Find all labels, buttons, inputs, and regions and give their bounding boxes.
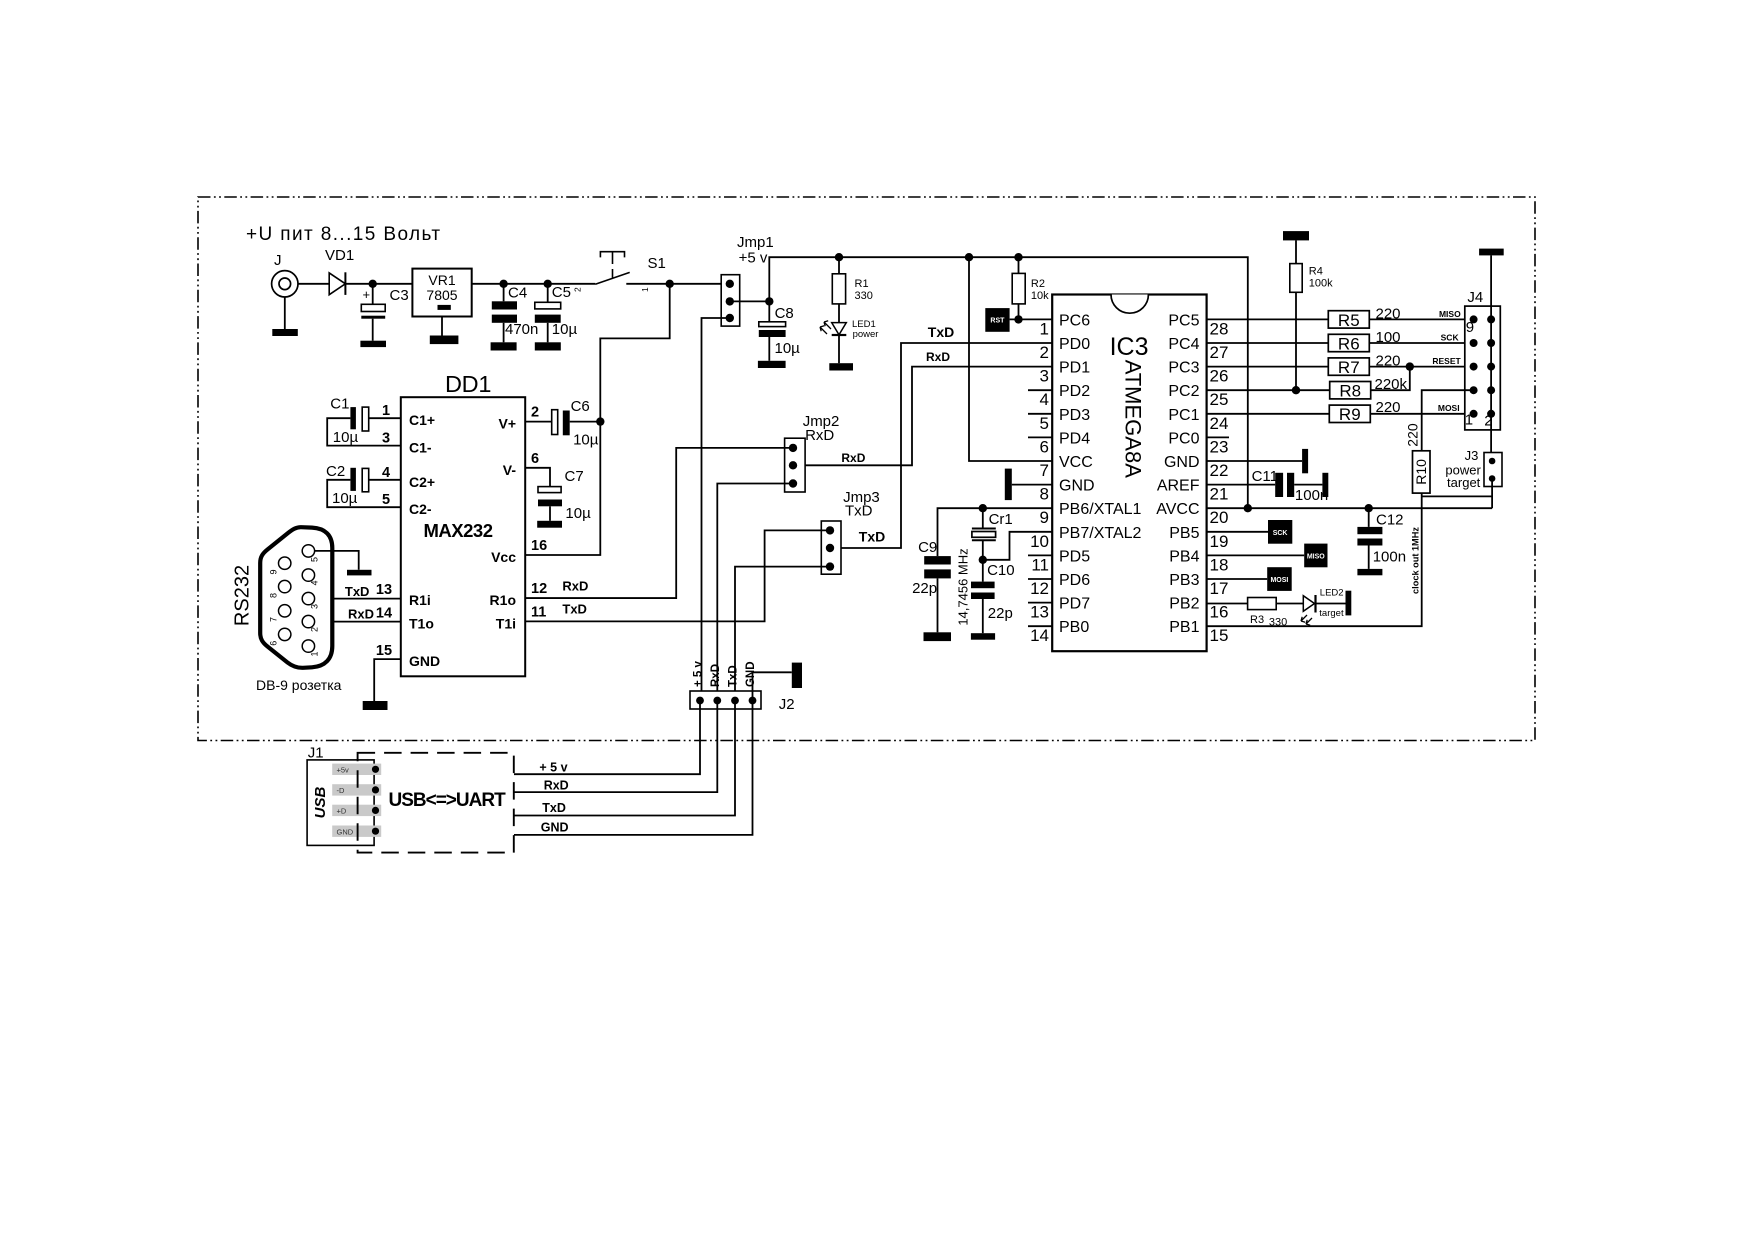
svg-text:1: 1 <box>382 403 390 419</box>
svg-text:R7: R7 <box>1338 358 1360 377</box>
wire R10 to PB1 clock out <box>1207 493 1422 626</box>
svg-text:23: 23 <box>1210 437 1229 456</box>
svg-text:2: 2 <box>531 405 539 421</box>
ground for C4 <box>491 342 517 350</box>
svg-text:TxD: TxD <box>542 801 566 815</box>
wire R9 to J4 MOSI <box>1370 413 1473 415</box>
svg-text:AREF: AREF <box>1157 478 1200 495</box>
wire LED1 to ground <box>838 335 840 363</box>
svg-text:8: 8 <box>269 593 279 598</box>
connector DB-9 RS232 <box>260 527 332 668</box>
node AVCC rail <box>1244 504 1252 512</box>
svg-text:DB-9 розетка: DB-9 розетка <box>256 677 342 693</box>
svg-text:J4: J4 <box>1467 289 1483 306</box>
svg-text:IC3: IC3 <box>1110 333 1149 361</box>
svg-text:PB3: PB3 <box>1169 572 1199 589</box>
svg-text:9: 9 <box>269 569 279 574</box>
resistor R7 220 <box>1328 358 1369 375</box>
wire RxD net Jmp2 to PD1 <box>793 367 1052 466</box>
svg-text:R2: R2 <box>1031 278 1045 290</box>
svg-text:PD6: PD6 <box>1059 572 1090 589</box>
svg-text:V-: V- <box>503 462 517 478</box>
wire PB2 pin16 to R3 <box>1207 603 1248 605</box>
capacitor C3 <box>372 284 374 305</box>
wire +5v branch down to MAX232 Vcc <box>525 284 670 555</box>
svg-text:RxD: RxD <box>562 579 588 594</box>
wire V+ pin2 to C6 <box>525 421 552 423</box>
svg-text:21: 21 <box>1210 485 1229 504</box>
svg-text:11: 11 <box>1031 555 1049 574</box>
svg-text:USB<=>UART: USB<=>UART <box>389 790 507 811</box>
svg-text:12: 12 <box>531 581 547 597</box>
svg-text:20: 20 <box>1210 508 1229 527</box>
connector J3 power target <box>1484 453 1502 487</box>
ground for MAX232 <box>363 701 388 710</box>
svg-text:PB2: PB2 <box>1169 596 1199 613</box>
resistor R10 220 <box>1413 451 1431 493</box>
wire VR1 to switch S1 <box>472 283 596 285</box>
svg-text:1: 1 <box>310 651 320 656</box>
svg-text:1: 1 <box>1040 319 1049 338</box>
svg-text:3: 3 <box>310 604 320 609</box>
wire R7 to J4 RESET <box>1369 366 1473 368</box>
svg-text:AVCC: AVCC <box>1156 501 1199 518</box>
svg-text:18: 18 <box>1210 555 1229 574</box>
capacitor C1 10µ <box>350 407 356 429</box>
svg-text:16: 16 <box>1210 603 1229 622</box>
node R4 junction <box>1292 386 1300 394</box>
ground for C12 <box>1357 569 1382 575</box>
svg-text:SCK: SCK <box>1441 333 1460 343</box>
svg-text:4: 4 <box>382 465 390 481</box>
resistor R3 330 <box>1248 598 1277 610</box>
svg-text:Jmp1: Jmp1 <box>737 234 774 251</box>
svg-text:470n: 470n <box>505 321 538 338</box>
wire AVCC pin20 <box>1207 507 1493 509</box>
ground for C7 <box>537 521 562 528</box>
wire PC4 pin27 to R6 <box>1207 342 1329 344</box>
wire J3 bottom pin to AVCC line <box>1491 479 1493 509</box>
svg-text:target: target <box>1319 608 1344 619</box>
svg-text:C1+: C1+ <box>409 412 435 428</box>
IC3 unconnected left stubs pins 4,5,6,11,12,13,14 <box>1028 389 1052 391</box>
capacitor C4 470n <box>503 284 505 302</box>
wire C1 to pin3 <box>327 418 401 445</box>
svg-text:TxD: TxD <box>845 503 873 520</box>
wire R1i pin13 from DB9 pin3 <box>314 598 401 600</box>
wire S1 to Jmp1 <box>626 283 721 285</box>
jumper Jmp3 <box>821 521 841 574</box>
connector J1 USB <box>307 760 374 846</box>
wire R1o pin12 RxD <box>525 597 676 599</box>
ground bar at IC3 pin8 <box>1012 484 1052 486</box>
ground bar above J4 <box>1479 249 1504 256</box>
connector J (power jack) <box>272 271 298 297</box>
svg-text:C6: C6 <box>571 398 590 415</box>
svg-text:T1i: T1i <box>496 615 516 631</box>
USB UART module dashed box <box>358 753 514 853</box>
svg-text:TxD: TxD <box>562 602 587 617</box>
svg-text:C1-: C1- <box>409 440 432 456</box>
node rail R1 <box>835 253 843 261</box>
svg-text:PD1: PD1 <box>1059 360 1090 377</box>
svg-text:6: 6 <box>1040 437 1049 456</box>
wire V- pin6 to C7 <box>525 468 550 487</box>
svg-text:1: 1 <box>640 287 650 292</box>
svg-text:13: 13 <box>376 582 392 598</box>
svg-text:3: 3 <box>1040 367 1049 386</box>
svg-text:RxD: RxD <box>348 607 374 622</box>
svg-text:9: 9 <box>1466 319 1474 336</box>
wire Jmp1 bottom pin to J2 +5v <box>702 318 730 701</box>
svg-text:SCK: SCK <box>1273 530 1288 537</box>
svg-text:11: 11 <box>531 604 546 620</box>
capacitor C12 100n <box>1368 508 1370 527</box>
switch S1 pushbutton <box>600 252 624 258</box>
svg-text:PD2: PD2 <box>1059 383 1090 400</box>
ground for C5 <box>535 342 561 350</box>
svg-text:7: 7 <box>269 617 279 622</box>
svg-text:PB7/XTAL2: PB7/XTAL2 <box>1059 525 1142 542</box>
svg-text:power: power <box>853 329 879 340</box>
svg-text:RxD: RxD <box>841 451 865 465</box>
node XTAL1 <box>979 504 987 512</box>
svg-text:330: 330 <box>855 290 873 302</box>
wire R5 to J4 MISO <box>1369 318 1473 320</box>
wire R6 to J4 SCK <box>1369 342 1473 344</box>
svg-text:MAX232: MAX232 <box>424 520 493 541</box>
wire J4 pin to R10 <box>1422 390 1474 451</box>
svg-text:+ 5 v: + 5 v <box>693 660 705 687</box>
svg-text:target: target <box>1447 475 1481 490</box>
svg-text:PB5: PB5 <box>1169 525 1199 542</box>
svg-text:PB0: PB0 <box>1059 619 1089 636</box>
svg-text:C1: C1 <box>330 396 349 413</box>
node RESET junction <box>1406 362 1414 370</box>
svg-text:VD1: VD1 <box>325 247 354 264</box>
capacitor C11 100n <box>1207 484 1276 486</box>
svg-text:TxD: TxD <box>859 529 885 545</box>
svg-text:PB1: PB1 <box>1169 619 1199 636</box>
IC3 stub pin 23 PC0 <box>1207 436 1229 438</box>
svg-text:22: 22 <box>1210 461 1229 480</box>
svg-text:PC1: PC1 <box>1168 407 1199 424</box>
wire TxD net Jmp3 to PD0 <box>830 343 1052 548</box>
svg-text:10µ: 10µ <box>552 321 578 338</box>
ground for C3 <box>360 341 386 347</box>
wire RST to PC6 pin1 <box>1010 318 1053 320</box>
net label RST black box <box>985 308 1009 332</box>
svg-text:R10: R10 <box>1413 459 1429 485</box>
wire Jmp3 top pin to MAX232 T1i <box>525 530 830 621</box>
voltage regulator VR1 7805 <box>412 269 471 317</box>
wire crystal to pin10 XTAL2 <box>983 532 1052 560</box>
svg-text:J3: J3 <box>1465 448 1479 463</box>
capacitor C7 10µ <box>538 487 561 493</box>
wire C2 to pin5 <box>327 480 401 507</box>
svg-text:clock out 1MHz: clock out 1MHz <box>1410 527 1420 594</box>
wire J4 ground column <box>1490 255 1492 461</box>
svg-text:C8: C8 <box>775 305 794 322</box>
svg-text:10µ: 10µ <box>775 340 801 357</box>
wire +5v rail <box>769 257 1248 508</box>
capacitor C10 22p <box>982 560 984 582</box>
node C4 junction <box>499 280 507 288</box>
wire R8 to RESET net <box>1371 367 1410 391</box>
ground bar at pin22 <box>1302 449 1308 473</box>
svg-text:MOSI: MOSI <box>1270 577 1288 584</box>
dash-dot device boundary frame <box>198 197 1535 741</box>
wire DB9 pin5 to ground <box>315 551 359 570</box>
ground for C8 <box>758 361 786 368</box>
svg-text:C3: C3 <box>390 287 409 304</box>
svg-text:PD4: PD4 <box>1059 430 1090 447</box>
wire Jmp2 bottom pin to J2 RxD <box>717 484 793 701</box>
wire Jmp2 top pin to MAX232 R1o <box>525 448 793 598</box>
wire PC5 pin28 to R5 <box>1207 318 1329 320</box>
svg-text:16: 16 <box>531 538 547 554</box>
svg-text:GND: GND <box>337 828 354 837</box>
svg-text:C11: C11 <box>1252 468 1278 485</box>
J1 pin pads <box>332 764 381 775</box>
wire rail to VCC pin7 <box>969 257 1052 461</box>
resistor R9 220 <box>1329 405 1370 422</box>
wire J3 to R10 node <box>1422 495 1492 497</box>
node S1 output junction <box>666 280 674 288</box>
svg-text:C2+: C2+ <box>409 474 435 490</box>
svg-text:5: 5 <box>1040 414 1049 433</box>
capacitor C8 10µ <box>768 301 770 321</box>
svg-text:USB: USB <box>312 786 329 818</box>
svg-text:MOSI: MOSI <box>1438 403 1460 413</box>
resistor R4 100k <box>1295 240 1297 263</box>
ground for J <box>272 329 298 336</box>
svg-text:GND: GND <box>745 661 757 687</box>
node XTAL2 <box>979 556 987 564</box>
svg-text:27: 27 <box>1210 343 1229 362</box>
node rail R2 <box>1014 253 1022 261</box>
svg-text:RxD: RxD <box>710 664 722 687</box>
net label MOSI black box at PB3 <box>1207 578 1268 580</box>
svg-text:VCC: VCC <box>1059 454 1093 471</box>
svg-text:2: 2 <box>310 627 320 632</box>
svg-text:+5 v: +5 v <box>739 250 768 267</box>
wire module TxD to J2 <box>514 701 735 816</box>
LED1 power <box>838 304 840 323</box>
ground bar for C11 <box>1322 473 1328 497</box>
ground for VR1 <box>430 336 459 345</box>
ground bar above R4 <box>1283 231 1309 240</box>
svg-text:TxD: TxD <box>345 584 370 599</box>
svg-text:Cr1: Cr1 <box>989 511 1013 528</box>
node C12 <box>1365 504 1373 512</box>
svg-text:9: 9 <box>1040 508 1049 527</box>
wire J2 GND to ground bar <box>753 672 792 700</box>
svg-text:14: 14 <box>1030 626 1049 645</box>
resistor R1 330 <box>838 257 840 274</box>
svg-text:100k: 100k <box>1309 278 1333 290</box>
svg-text:GND: GND <box>541 821 569 835</box>
svg-text:17: 17 <box>1210 579 1229 598</box>
wire Jmp1 middle pin to +5v node <box>730 300 770 302</box>
wire GND pin22 to ground bar <box>1207 460 1303 462</box>
jumper Jmp2 <box>785 438 806 492</box>
svg-text:220: 220 <box>1404 423 1420 447</box>
svg-text:-D: -D <box>337 786 345 795</box>
svg-text:2: 2 <box>1040 343 1049 362</box>
ground for DB9 pin5 <box>347 570 372 576</box>
svg-text:4: 4 <box>310 580 320 585</box>
svg-text:TxD: TxD <box>928 324 954 340</box>
svg-text:PD5: PD5 <box>1059 548 1090 565</box>
svg-text:5: 5 <box>310 557 320 562</box>
svg-text:V+: V+ <box>498 416 516 432</box>
svg-text:10k: 10k <box>1031 290 1049 302</box>
svg-text:10µ: 10µ <box>565 505 591 522</box>
svg-text:DD1: DD1 <box>445 371 491 397</box>
svg-text:28: 28 <box>1210 319 1229 338</box>
resistor R8 220k <box>1330 382 1371 399</box>
svg-text:J1: J1 <box>308 745 324 762</box>
svg-text:PD7: PD7 <box>1059 596 1090 613</box>
node power-in junction <box>369 280 377 288</box>
svg-text:12: 12 <box>1030 579 1049 598</box>
node C6 junction <box>596 417 604 425</box>
svg-text:C10: C10 <box>987 562 1015 579</box>
svg-text:14,7456 MHz: 14,7456 MHz <box>955 548 970 625</box>
svg-text:RESET: RESET <box>1432 356 1461 366</box>
LED2 target <box>1303 596 1314 612</box>
svg-text:R4: R4 <box>1309 266 1323 278</box>
svg-text:4: 4 <box>1040 390 1049 409</box>
resistor R6 100 <box>1328 334 1369 351</box>
wire PC1 pin24 to R9 <box>1207 413 1330 415</box>
svg-text:+5v: +5v <box>337 766 350 775</box>
wire C2 to pin4 <box>369 479 401 481</box>
ground bar near J2 <box>792 663 802 688</box>
jumper Jmp1 <box>721 275 740 326</box>
svg-text:+D: +D <box>337 807 347 816</box>
svg-text:19: 19 <box>1210 532 1229 551</box>
svg-text:C5: C5 <box>552 284 571 301</box>
wire T1o pin14 to DB9 pin2 <box>314 621 401 623</box>
node +5v <box>765 297 773 305</box>
svg-text:C2-: C2- <box>409 501 432 517</box>
svg-text:R1o: R1o <box>490 592 516 608</box>
wire VD1 to VR1 <box>345 283 412 285</box>
target power bar <box>1346 591 1352 616</box>
svg-text:RxD: RxD <box>926 350 950 364</box>
svg-text:RS232: RS232 <box>232 565 254 626</box>
svg-text:ATMEGA8A: ATMEGA8A <box>1121 360 1146 479</box>
svg-text:R6: R6 <box>1338 334 1360 353</box>
svg-text:S1: S1 <box>648 255 666 272</box>
svg-text:R8: R8 <box>1339 382 1361 401</box>
svg-text:PB4: PB4 <box>1169 548 1199 565</box>
svg-text:R5: R5 <box>1338 311 1360 330</box>
svg-text:6: 6 <box>269 641 279 646</box>
svg-text:22p: 22p <box>988 605 1013 622</box>
capacitor C9 22p <box>924 556 951 564</box>
svg-text:GND: GND <box>409 653 440 669</box>
svg-text:6: 6 <box>531 451 539 467</box>
wire module RxD to J2 <box>514 701 717 793</box>
svg-text:7: 7 <box>1040 461 1049 480</box>
svg-text:R1i: R1i <box>409 592 431 608</box>
svg-text:15: 15 <box>1210 626 1229 645</box>
wire Jmp3 bottom pin to J2 TxD <box>735 567 830 701</box>
svg-text:25: 25 <box>1210 390 1229 409</box>
wire module +5v to J2 <box>514 701 700 775</box>
wire LED2 to target bar <box>1316 603 1345 605</box>
svg-text:R1: R1 <box>855 278 869 290</box>
net label SCK black box at PB5 <box>1207 531 1268 533</box>
IC IC3 ATMEGA8A <box>1052 295 1206 652</box>
svg-text:J2: J2 <box>779 696 795 713</box>
svg-text:GND: GND <box>1164 454 1200 471</box>
crystal Cr1 14,7456 MHz <box>982 508 984 528</box>
svg-text:C9: C9 <box>918 539 937 556</box>
svg-text:PC5: PC5 <box>1168 312 1199 329</box>
wire R3 to LED2 <box>1276 603 1303 605</box>
wire PC3 pin26 to R7 <box>1207 366 1329 368</box>
svg-text:8: 8 <box>1040 485 1049 504</box>
svg-text:2: 2 <box>573 287 583 292</box>
svg-text:14: 14 <box>376 605 392 621</box>
ground for LED1 <box>829 363 853 370</box>
node C5 junction <box>544 280 552 288</box>
svg-text:3: 3 <box>382 431 390 447</box>
wire GND pin15 to ground <box>374 659 401 701</box>
diode VD1 <box>329 273 345 295</box>
svg-text:+ 5 v: + 5 v <box>539 761 567 775</box>
svg-text:PC2: PC2 <box>1168 383 1199 400</box>
wire PC2 pin25 to R8 <box>1207 389 1330 391</box>
svg-text:T1o: T1o <box>409 615 434 631</box>
svg-text:J: J <box>274 252 282 269</box>
svg-text:PD3: PD3 <box>1059 407 1090 424</box>
svg-text:15: 15 <box>376 643 392 659</box>
svg-text:Vcc: Vcc <box>491 549 516 565</box>
ground for C9 <box>924 632 952 641</box>
wire C1 to pin1 <box>369 417 401 419</box>
svg-text:MISO: MISO <box>1307 553 1325 560</box>
svg-text:7805: 7805 <box>426 287 457 303</box>
IC DD1 MAX232 <box>401 397 525 676</box>
svg-text:RxD: RxD <box>544 779 569 793</box>
ground for C10 <box>971 633 995 640</box>
svg-text:R3: R3 <box>1250 614 1264 626</box>
svg-text:+: + <box>363 287 371 302</box>
svg-text:C4: C4 <box>508 285 527 302</box>
svg-text:5: 5 <box>382 492 390 508</box>
svg-text:PC3: PC3 <box>1168 360 1199 377</box>
svg-text:PC4: PC4 <box>1168 336 1199 353</box>
svg-text:100n: 100n <box>1373 549 1406 566</box>
capacitor C5 10µ <box>547 284 549 303</box>
svg-text:RxD: RxD <box>805 427 834 444</box>
resistor R5 220 <box>1328 311 1369 328</box>
capacitor C2 10µ <box>350 468 356 491</box>
net label MISO black box at PB4 <box>1207 554 1305 556</box>
wire J to ground <box>284 297 286 329</box>
crystal circuit: wire pin9 XTAL1 <box>938 508 1053 556</box>
wire J to VD1 <box>298 283 329 285</box>
svg-text:330: 330 <box>1269 617 1287 629</box>
node RST <box>1014 315 1022 323</box>
svg-text:10: 10 <box>1030 532 1049 551</box>
svg-text:C7: C7 <box>565 468 584 485</box>
